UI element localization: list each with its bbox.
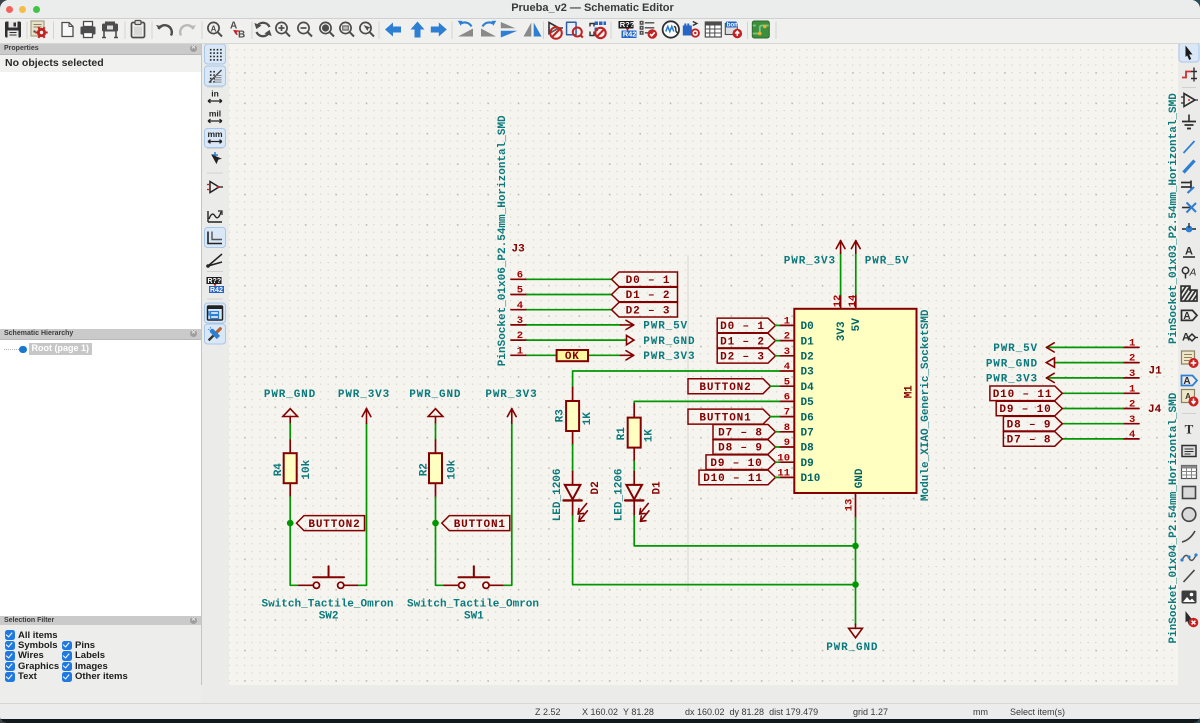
SW2 value Switch_Tactile_Omron (261, 598, 393, 610)
power symbol PWR_GND (bottom) (826, 624, 878, 654)
svg-text:BUTTON1: BUTTON1 (454, 519, 506, 531)
junction BUTTON1 node (432, 520, 439, 527)
svg-text:5V: 5V (851, 318, 863, 332)
svg-text:D2: D2 (801, 352, 814, 364)
J4 reference (1148, 404, 1162, 416)
svg-text:14: 14 (847, 295, 859, 308)
global label D9 – 10 at J4 (996, 401, 1062, 416)
canvas placeholder (228, 43, 1179, 686)
LED D1 (625, 472, 649, 522)
power symbol PWR_3V3 (top) (784, 241, 845, 268)
svg-text:J4: J4 (1148, 404, 1162, 416)
svg-text:R??: R?? (620, 20, 635, 29)
svg-text:PWR_3V3: PWR_3V3 (338, 389, 390, 401)
svg-text:GND: GND (854, 468, 866, 488)
svg-text:R2: R2 (418, 463, 430, 476)
junction at GND rail / D1 branch (852, 543, 859, 550)
wire pin12 to PWR_3V3 arrow (840, 253, 842, 294)
title bar (0, 0, 1200, 19)
global label D1 – 2 at M1 (717, 333, 779, 348)
svg-text:Switch_Tactile_Omron: Switch_Tactile_Omron (407, 598, 539, 610)
IC M1 Module_XIAO_Generic_SocketSMD body (794, 309, 916, 493)
resistor R4 (284, 440, 297, 497)
global label D9 – 10 at M1 (706, 455, 780, 470)
R2 value 10k (447, 459, 459, 479)
svg-text:2: 2 (1129, 353, 1135, 365)
svg-text:2: 2 (784, 331, 790, 343)
junction at GND rail / D2 branch (852, 581, 859, 588)
left column panels (0, 44, 201, 703)
svg-text:5: 5 (517, 285, 523, 297)
svg-text:4: 4 (784, 361, 790, 373)
SW1 reference (464, 611, 484, 623)
M1 footprint field Module_XIAO_Generic_SocketSMD (920, 309, 932, 501)
svg-text:PWR_3V3: PWR_3V3 (485, 389, 537, 401)
svg-text:D9 – 10: D9 – 10 (999, 404, 1051, 416)
R1 value 1K (644, 429, 656, 443)
svg-text:9: 9 (784, 437, 790, 449)
resistor R1 (628, 404, 641, 462)
global label D2 – 3 at M1 (717, 349, 779, 364)
wire J3 pin6 to D0 label (527, 278, 612, 280)
svg-text:D10: D10 (801, 473, 821, 485)
J3 footprint field PinSocket_01x06_P2.54mm_Horizontal_SMD (497, 115, 509, 366)
R3 reference (555, 409, 567, 423)
power symbol PWR_GND (above R4) (264, 389, 316, 424)
svg-text:D6: D6 (801, 412, 814, 424)
svg-text:PWR_GND: PWR_GND (986, 358, 1038, 370)
wire pin14 to PWR_5V arrow (855, 253, 857, 294)
svg-text:SW2: SW2 (319, 611, 339, 623)
svg-text:mm: mm (207, 129, 223, 139)
svg-text:J1: J1 (1149, 365, 1163, 377)
J4 pin numbers (1129, 383, 1135, 441)
global label D7 – 8 at J4 (1003, 432, 1062, 447)
wire J3 pin1 to OK label (527, 354, 557, 356)
svg-text:PinSocket_01x04_P2.54mm_Horizo: PinSocket_01x04_P2.54mm_Horizontal_SMD (1168, 392, 1178, 643)
power symbol PWR_3V3 (above SW2) (338, 389, 390, 423)
power symbol PWR_5V (J3 row) (621, 320, 689, 332)
svg-text:D7 – 8: D7 – 8 (718, 428, 763, 440)
svg-text:5: 5 (784, 376, 790, 388)
svg-text:3: 3 (1129, 414, 1135, 426)
svg-text:A: A (1185, 246, 1193, 258)
wire OK label to PWR_3V3 (588, 354, 621, 356)
svg-text:PWR_3V3: PWR_3V3 (986, 374, 1038, 386)
svg-text:1: 1 (1129, 338, 1135, 350)
svg-text:PWR_GND: PWR_GND (643, 336, 695, 348)
svg-text:OK: OK (565, 351, 580, 363)
svg-text:D1: D1 (652, 481, 664, 495)
svg-text:D2: D2 (590, 481, 602, 494)
D1 value LED_1206 (614, 468, 626, 521)
J4 footprint field PinSocket_01x04_P2.54mm_Horizontal_SMD (1168, 392, 1180, 643)
wire J1 pin1 to PWR_5V (1047, 346, 1124, 348)
global label D8 – 9 at M1 (713, 440, 780, 455)
svg-text:PWR_GND: PWR_GND (409, 389, 461, 401)
svg-text:Module_XIAO_Generic_SocketSMD: Module_XIAO_Generic_SocketSMD (920, 309, 932, 501)
M1 pin names D0-D10 (801, 321, 821, 485)
M1 left pin numbers (777, 316, 790, 480)
status bar (0, 703, 1200, 721)
D2 reference (590, 481, 602, 494)
svg-text:3V3: 3V3 (836, 321, 848, 341)
global label D8 – 9 at J4 (1003, 416, 1062, 431)
wire J3 pin5 to D1 label (527, 294, 612, 296)
svg-text:4: 4 (517, 300, 523, 312)
power symbol PWR_3V3 (above SW1) (485, 389, 537, 423)
wire J4 to D8 – 9 (1062, 423, 1123, 425)
svg-text:1K: 1K (582, 412, 594, 426)
svg-text:D3: D3 (801, 367, 815, 379)
svg-text:1: 1 (517, 345, 523, 357)
wire J3 pin3 to PWR_5V (527, 324, 621, 326)
svg-text:D8: D8 (801, 443, 815, 455)
wire J4 to D10 – 11 (1062, 392, 1123, 394)
svg-text:1: 1 (784, 316, 790, 328)
R4 value 10k (301, 459, 313, 479)
wire SW2 to PWR_3V3 (359, 423, 367, 585)
M1 pin 14 (5V) top (847, 295, 863, 332)
M1 pin 12 (3V3) top (832, 295, 848, 342)
global label BUTTON2 at M1 (pin D4) (688, 379, 780, 394)
svg-text:T: T (1185, 422, 1194, 437)
svg-text:PWR_5V: PWR_5V (993, 343, 1038, 355)
wire LED D1 to GND rail (634, 516, 855, 546)
svg-text:in: in (211, 89, 219, 99)
svg-text:D9 – 10: D9 – 10 (710, 458, 762, 470)
svg-text:Switch_Tactile_Omron: Switch_Tactile_Omron (261, 598, 393, 610)
svg-text:4: 4 (1129, 429, 1135, 441)
svg-text:3: 3 (517, 315, 523, 327)
wire R1 to LED D1 (633, 461, 635, 471)
svg-text:R4: R4 (273, 463, 285, 477)
global label D7 – 8 at M1 (713, 425, 780, 440)
global label D10 – 11 at J4 (990, 386, 1062, 401)
SW1 value Switch_Tactile_Omron (407, 598, 539, 610)
svg-text:6: 6 (784, 392, 790, 404)
svg-text:PWR_GND: PWR_GND (264, 389, 316, 401)
svg-text:2: 2 (1129, 399, 1135, 411)
power symbol PWR_GND (J3 row) (627, 335, 696, 348)
switch SW1 (444, 566, 504, 588)
svg-text:10k: 10k (301, 459, 313, 479)
svg-text:D10 – 11: D10 – 11 (993, 389, 1053, 401)
svg-text:3: 3 (1129, 368, 1135, 380)
resistor R3 (566, 387, 579, 445)
global label D1 – 2 at J3 (612, 287, 678, 302)
SW2 reference (319, 611, 339, 623)
global label D10 – 11 at M1 (699, 470, 780, 485)
M1 pin 13 (GND) bottom (844, 468, 867, 517)
svg-text:PWR_5V: PWR_5V (865, 256, 910, 268)
svg-text:D7 – 8: D7 – 8 (1007, 435, 1052, 447)
D2 value LED_1206 (552, 468, 564, 521)
svg-text:2: 2 (517, 330, 523, 342)
svg-text:10k: 10k (447, 459, 459, 479)
svg-text:1: 1 (1129, 383, 1135, 395)
connector J3 pins (511, 279, 527, 355)
wire PWR_GND to R2 (435, 424, 437, 440)
wire LED D2 to GND rail (573, 516, 856, 585)
power symbol PWR_GND (above R2) (409, 389, 461, 424)
R3 value 1K (582, 412, 594, 426)
svg-text:D9: D9 (801, 458, 814, 470)
svg-text:mil: mil (209, 109, 221, 119)
power symbol PWR_3V3 (J1) (986, 373, 1054, 385)
J1 pin numbers (1129, 338, 1135, 381)
power symbol PWR_GND (J1) (986, 358, 1055, 371)
svg-text:BUTTON1: BUTTON1 (699, 412, 751, 424)
global label BUTTON1 at node (442, 516, 510, 531)
svg-text:1K: 1K (644, 429, 656, 443)
svg-text:13: 13 (844, 499, 856, 512)
svg-text:R42: R42 (623, 30, 637, 39)
svg-text:PinSocket_01x06_P2.54mm_Horizo: PinSocket_01x06_P2.54mm_Horizontal_SMD (497, 115, 509, 366)
svg-text:R1: R1 (616, 427, 628, 441)
wire M1 pin13 to PWR_GND (855, 518, 857, 625)
R1 reference (616, 427, 628, 441)
global label D0 – 1 at J3 (612, 272, 678, 287)
svg-text:D4: D4 (801, 382, 815, 394)
svg-text:R3: R3 (555, 409, 567, 423)
resistor R2 (429, 440, 442, 497)
svg-text:D2 – 3: D2 – 3 (626, 305, 671, 317)
svg-text:R??: R?? (208, 278, 222, 285)
svg-text:D1 – 2: D1 – 2 (720, 336, 765, 348)
global label BUTTON1 at M1 (pin D6) (688, 409, 780, 424)
svg-text:BUTTON2: BUTTON2 (699, 382, 751, 394)
power symbol PWR_3V3 (J3 row) (621, 351, 696, 363)
M1 reference (903, 385, 915, 399)
svg-text:D1 – 2: D1 – 2 (626, 290, 671, 302)
svg-text:PWR_GND: PWR_GND (826, 642, 878, 654)
junction BUTTON2 node (287, 520, 294, 527)
svg-text:A: A (1183, 376, 1190, 387)
J3 reference label (512, 244, 526, 256)
D1 reference (652, 481, 664, 495)
svg-text:M1: M1 (903, 385, 915, 399)
svg-text:8: 8 (784, 422, 790, 434)
svg-text:A: A (230, 21, 237, 32)
wire R2 to SW1 (436, 497, 445, 585)
svg-text:D8 – 9: D8 – 9 (718, 443, 763, 455)
svg-text:PinSocket_01x03_P2.54mm_Horizo: PinSocket_01x03_P2.54mm_Horizontal_SMD (1168, 93, 1178, 344)
svg-text:12: 12 (832, 295, 844, 308)
R4 reference (273, 463, 285, 477)
cursor crosshair line (687, 255, 689, 592)
power symbol PWR_5V (top) (851, 241, 909, 268)
global label BUTTON2 at node (297, 516, 365, 531)
global label D0 – 1 at M1 (717, 318, 779, 333)
svg-text:D1: D1 (801, 336, 815, 348)
wire M1 pin4 D3 to R3 (573, 371, 780, 387)
svg-text:A: A (1189, 268, 1197, 279)
wire J1 pin2 to PWR_GND (1055, 362, 1124, 364)
tree row (0, 343, 201, 357)
svg-text:J3: J3 (512, 244, 526, 256)
J1 reference (1149, 365, 1163, 377)
wire J3 pin2 to PWR_GND (527, 339, 627, 341)
connector J4 pins (1123, 393, 1139, 439)
R2 reference (418, 463, 430, 476)
svg-text:D0: D0 (801, 321, 814, 333)
net label OK (557, 350, 588, 363)
svg-text:PWR_5V: PWR_5V (643, 321, 688, 333)
svg-text:D7: D7 (801, 428, 814, 440)
wire J4 to D9 – 10 (1062, 408, 1123, 410)
svg-text:6: 6 (517, 269, 523, 281)
svg-text:A: A (211, 25, 217, 34)
svg-text:LED_1206: LED_1206 (552, 468, 564, 521)
LED D2 (564, 472, 588, 522)
svg-text:R42: R42 (210, 287, 223, 294)
global label D2 – 3 at J3 (612, 302, 678, 317)
svg-text:D5: D5 (801, 397, 815, 409)
svg-text:PWR_3V3: PWR_3V3 (643, 351, 695, 363)
wire SW1 to PWR_3V3 (504, 423, 512, 585)
wire PWR_GND to R4 (289, 424, 291, 440)
svg-text:D0 – 1: D0 – 1 (626, 275, 671, 287)
svg-text:D2 – 3: D2 – 3 (720, 352, 765, 364)
svg-text:PWR_3V3: PWR_3V3 (784, 256, 836, 268)
toolbar (0, 19, 1200, 44)
svg-text:D0 – 1: D0 – 1 (720, 321, 765, 333)
switch SW2 (299, 566, 359, 588)
wire J3 pin4 to D2 label (527, 309, 612, 311)
svg-text:BUTTON2: BUTTON2 (308, 519, 360, 531)
wire R3 to LED D2 (572, 445, 574, 472)
strips (201, 44, 229, 703)
J1 footprint field PinSocket_01x03_P2.54mm_Horizontal_SMD (1168, 93, 1180, 344)
svg-text:D8 – 9: D8 – 9 (1007, 419, 1052, 431)
svg-text:B: B (238, 30, 245, 41)
svg-text:7: 7 (784, 407, 790, 419)
svg-text:D10 – 11: D10 – 11 (703, 473, 763, 485)
connector J1 pins (1123, 347, 1139, 378)
power symbol PWR_5V (J1) (993, 343, 1054, 355)
wire M1 pin6 D5 to R1 (634, 401, 779, 403)
wire J1 pin3 to PWR_3V3 (1047, 377, 1124, 379)
J3 pin numbers 6..1 (517, 269, 523, 357)
svg-text:bom: bom (727, 22, 740, 28)
M1 left pins 1-11 (780, 325, 795, 477)
svg-text:SW1: SW1 (464, 611, 484, 623)
wire R4 to SW2 (290, 497, 299, 585)
svg-text:A: A (1183, 311, 1190, 322)
svg-text:3: 3 (784, 346, 790, 358)
svg-text:LED_1206: LED_1206 (614, 468, 626, 521)
wire J4 to D7 – 8 (1062, 438, 1123, 440)
